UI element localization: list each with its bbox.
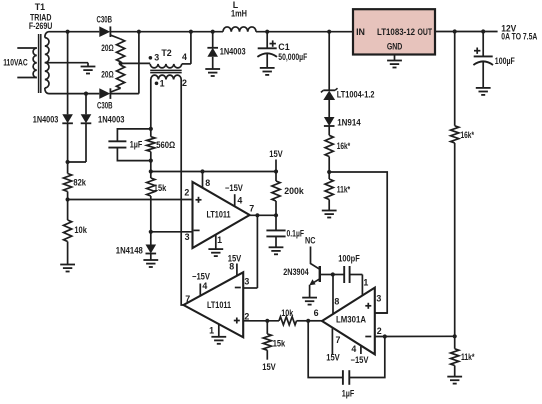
node reference chain (327, 30, 331, 34)
transformer T1 primary winding (17, 47, 37, 49)
pin 4 stub U3 (360, 346, 362, 354)
wire secondary top to SCR (49, 31, 100, 33)
regulator LT1083-12 (353, 9, 435, 54)
transformer T2 top winding (150, 64, 182, 68)
capacitor 1uF parallel (117, 129, 150, 141)
resistor 20ohm top (117, 39, 125, 62)
wire cathode bus down (138, 32, 140, 94)
wire T2 pin 4 up (190, 32, 192, 64)
node C1 (265, 30, 269, 34)
svg-text:7: 7 (185, 294, 190, 304)
svg-text:1N914: 1N914 (337, 118, 361, 128)
wire SCR cathode rail (110, 31, 223, 33)
wire T2 pin 1 down (150, 80, 152, 137)
svg-text:OUT: OUT (418, 27, 433, 37)
resistor 20ohm bottom (117, 65, 125, 88)
pin 4 stub U1 (234, 194, 236, 206)
ground center tap (87, 63, 89, 67)
wire reference chain (328, 32, 330, 91)
label 15V rail (275, 160, 277, 172)
svg-text:100pF: 100pF (338, 253, 360, 263)
svg-text:7: 7 (249, 203, 254, 213)
pin 1 stub U3 (361, 275, 363, 296)
wire secondary bottom to SCR (49, 93, 100, 95)
wire divider to comparator + (68, 199, 193, 201)
svg-text:T1: T1 (35, 2, 45, 12)
svg-text:LM301A: LM301A (336, 315, 367, 325)
svg-text:15V: 15V (262, 362, 276, 372)
svg-text:2: 2 (184, 187, 189, 197)
pin 7 stub U3 (331, 328, 333, 354)
pin 1 ground U1 (215, 235, 217, 249)
pin 8 stub U1 (202, 172, 204, 189)
svg-text:0A TO 7.5A: 0A TO 7.5A (501, 32, 537, 42)
wire U2 noninverting input (243, 320, 279, 322)
svg-text:1N4003: 1N4003 (33, 114, 59, 124)
svg-text:10k: 10k (281, 308, 293, 318)
diode 1N4003 right (85, 94, 87, 115)
wire inductor to regulator (256, 31, 353, 33)
wire gate node to T2 pin 3 (121, 62, 151, 64)
node output U1 (255, 213, 259, 217)
op-amp U3 LM301A (322, 288, 375, 355)
ground regulator (394, 55, 396, 61)
svg-text:6: 6 (314, 308, 319, 318)
svg-text:C30B: C30B (97, 100, 113, 110)
svg-text:C30B: C30B (97, 14, 113, 24)
svg-text:82k: 82k (73, 177, 86, 187)
wire reference to LM301A + (329, 172, 387, 313)
node rectifier bottom (84, 92, 88, 96)
pin 4 stub U2 (199, 284, 201, 297)
transformer T2 core (150, 69, 182, 71)
svg-text:4: 4 (351, 344, 356, 354)
node T2 pin 4 to rail (189, 30, 193, 34)
node 15V rail tap (149, 169, 153, 173)
pin 8 stub U2 (236, 264, 238, 277)
svg-text:−15V: −15V (351, 355, 369, 365)
SCR C30B top (99, 26, 110, 37)
svg-text:2: 2 (377, 326, 382, 336)
capacitor 0.1uF (266, 229, 285, 231)
node output 100uF (481, 29, 485, 33)
svg-text:1N4148: 1N4148 (116, 246, 143, 256)
transformer T1 secondary winding (45, 32, 49, 38)
resistor 10k horizontal (279, 317, 297, 325)
svg-text:16k*: 16k* (461, 130, 475, 140)
pin 7 output U1 (250, 214, 276, 216)
diode 1N914 (324, 117, 335, 126)
pin 1 ground U2 (218, 324, 220, 336)
pin 6 output U3 (308, 320, 322, 322)
transformer T2 bottom winding (151, 75, 181, 79)
svg-text:20Ω: 20Ω (101, 70, 114, 80)
svg-text:3: 3 (376, 294, 381, 304)
transformer T1 core (38, 34, 40, 93)
pin 2 input U3 (375, 335, 455, 337)
node output 16k (453, 29, 457, 33)
diode 1N4003 left (67, 32, 69, 115)
diode 1N4003 freewheel (212, 32, 214, 48)
resistor 16k right (454, 32, 456, 126)
node 560ohm bottom (149, 159, 153, 163)
pin 8 stub U3 (332, 275, 334, 315)
svg-text:LT1083-12: LT1083-12 (377, 27, 415, 37)
svg-text:10k: 10k (74, 225, 87, 235)
svg-text:3: 3 (154, 53, 159, 63)
svg-text:20Ω: 20Ω (101, 43, 114, 53)
resistor 16k left (325, 135, 333, 156)
svg-text:11k*: 11k* (461, 352, 475, 362)
svg-text:2: 2 (182, 78, 187, 88)
wire 15V rail (151, 171, 276, 173)
svg-text:−15V: −15V (225, 183, 243, 193)
svg-text:LT1004-1.2: LT1004-1.2 (337, 89, 375, 99)
svg-text:8: 8 (205, 178, 210, 188)
svg-text:100µF: 100µF (495, 56, 515, 66)
wire secondary center tap (45, 62, 88, 64)
capacitor 1uF feedback (308, 321, 343, 378)
node 1uF top (149, 127, 153, 131)
op-amp U1 LT1011 (193, 182, 250, 248)
node comparator pin 8 supply (200, 169, 204, 173)
diode 1N4148 (146, 245, 157, 254)
svg-text:50,000µF: 50,000µF (278, 52, 307, 62)
wire U2 output to T2 pin 2 (181, 80, 183, 306)
svg-text:1µF: 1µF (342, 388, 355, 398)
svg-text:1N4003: 1N4003 (98, 114, 125, 124)
svg-text:−15V: −15V (192, 272, 210, 282)
node divider (66, 197, 70, 201)
node 200k bottom (274, 213, 278, 217)
svg-text:LT1011: LT1011 (207, 300, 231, 310)
resistor 11k right (451, 349, 459, 366)
svg-text:3: 3 (244, 276, 249, 286)
svg-text:11k*: 11k* (337, 185, 351, 195)
svg-text:15V: 15V (326, 353, 340, 363)
svg-text:1N4003: 1N4003 (220, 46, 246, 56)
node 20ohm junction (119, 61, 123, 65)
resistor 15k to 15V (266, 321, 268, 334)
wire rectifier junction (68, 161, 86, 163)
svg-text:GND: GND (387, 42, 403, 52)
node compensation (331, 272, 335, 276)
svg-text:4: 4 (237, 195, 242, 205)
svg-text:15V: 15V (269, 149, 283, 159)
zener LT1004-1.2 (323, 91, 335, 100)
capacitor 100uF (482, 32, 484, 57)
svg-text:560Ω: 560Ω (156, 140, 175, 150)
capacitor C1 50,000uF (266, 32, 268, 49)
node 15k 10k junction (265, 319, 269, 323)
resistor 10k (64, 220, 72, 242)
svg-text:IN: IN (356, 27, 365, 37)
node rectifier top (66, 30, 70, 34)
resistor 15k (147, 178, 155, 196)
svg-text:1: 1 (217, 235, 222, 245)
svg-text:1: 1 (209, 326, 214, 336)
pin 3 input U3 (375, 312, 387, 314)
node reference divider (327, 170, 331, 174)
resistor 82k (67, 162, 69, 174)
svg-text:1: 1 (160, 79, 165, 89)
SCR C30B bottom (99, 88, 110, 99)
svg-text:4: 4 (202, 281, 207, 291)
svg-text:0.1µF: 0.1µF (287, 228, 305, 238)
svg-text:15k: 15k (273, 339, 286, 349)
op-amp U2 LT1011 (184, 272, 244, 337)
transistor Q1 2N3904 (319, 266, 321, 282)
svg-text:3: 3 (185, 232, 190, 242)
node inverting input (149, 230, 153, 234)
svg-text:LT1011: LT1011 (207, 210, 231, 220)
svg-text:F-269U: F-269U (29, 21, 53, 31)
svg-text:4: 4 (182, 52, 187, 62)
wire inverting input to comparator (151, 231, 193, 233)
svg-text:16k*: 16k* (337, 141, 351, 151)
node output divider (453, 334, 457, 338)
wire U1 output to U2 inverting input (256, 215, 258, 288)
svg-text:C1: C1 (278, 42, 289, 52)
svg-text:1µF: 1µF (130, 140, 143, 150)
svg-text:15k: 15k (154, 183, 167, 193)
svg-text:8: 8 (334, 297, 339, 307)
svg-text:8: 8 (229, 262, 234, 272)
svg-text:1: 1 (363, 278, 368, 288)
svg-text:110VAC: 110VAC (3, 58, 28, 68)
node freewheel diode (211, 30, 215, 34)
inductor L 1mH (223, 27, 256, 32)
node cathode bus (137, 30, 141, 34)
node 200k top (274, 169, 278, 173)
svg-text:7: 7 (336, 335, 341, 345)
resistor 200k (275, 172, 277, 182)
svg-text:T2: T2 (161, 48, 171, 58)
wire regulator output (435, 31, 498, 33)
capacitor 100pF (333, 274, 344, 276)
svg-text:2N3904: 2N3904 (283, 267, 309, 277)
svg-text:NC: NC (305, 236, 316, 246)
svg-text:200k: 200k (284, 186, 304, 196)
svg-text:1mH: 1mH (231, 9, 247, 19)
resistor 560ohm (147, 137, 155, 152)
resistor 11k left (325, 179, 333, 200)
